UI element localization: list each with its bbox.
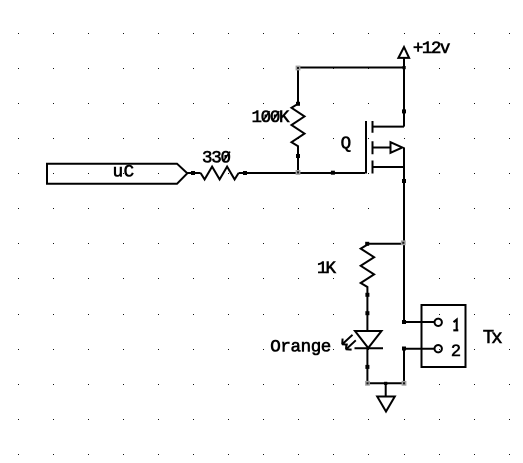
node: endpoint at tag tip — [191, 171, 195, 175]
connector pin 2 circle — [435, 345, 442, 352]
node: drain pin endpoint — [402, 109, 406, 113]
wire 100K branch top — [298, 68, 404, 104]
node: source pin endpoint — [402, 179, 406, 183]
node: gray junction 1K branch / source wire — [401, 240, 406, 245]
node: 1K top pin endpoint — [365, 242, 369, 246]
power +12v symbol — [398, 47, 409, 58]
node: 100K bottom pin endpoint — [296, 154, 300, 158]
svg-text:Tx: Tx — [483, 327, 503, 349]
resistor 100K — [292, 104, 305, 173]
tag uC — [47, 164, 187, 184]
node: gray junction 100K top corner — [296, 66, 301, 71]
label 100K — [252, 108, 290, 128]
resistor 330 — [201, 167, 239, 180]
ground symbol — [377, 382, 395, 412]
label uC — [113, 162, 135, 182]
node: LED top pin endpoint — [365, 311, 369, 315]
label pin 1 — [453, 320, 458, 331]
label 330 — [202, 148, 231, 168]
LED emission arrows — [342, 335, 356, 350]
svg-text:Q: Q — [341, 134, 352, 154]
node: LED bottom pin endpoint — [365, 365, 369, 369]
svg-text:+12v: +12v — [413, 39, 451, 59]
node: gray junction bottom wire left — [365, 381, 370, 386]
transistor Q (P-MOSFET) — [366, 121, 404, 174]
node: endpoint right of 330 — [243, 171, 247, 175]
node: 100K top pin endpoint — [296, 102, 300, 106]
node: corner at pin 1 wire — [402, 320, 406, 324]
label Q — [341, 134, 352, 154]
node: 1K bottom pin endpoint — [365, 293, 369, 297]
label 1K — [317, 259, 336, 279]
wire source net down — [404, 148, 435, 323]
connector Tx box — [422, 305, 466, 367]
label Orange — [270, 337, 331, 357]
LED D1 Orange — [355, 313, 384, 383]
svg-text:uC: uC — [113, 162, 135, 182]
connector pin 1 circle — [435, 319, 442, 326]
node: T junction at +12v rail — [403, 66, 406, 69]
wire bottom net — [367, 382, 404, 384]
resistor 1K — [361, 245, 374, 314]
wire 1K branch — [367, 243, 404, 246]
node: corner at pin 2 wire — [402, 347, 406, 351]
svg-text:330: 330 — [202, 148, 231, 168]
svg-text:100K: 100K — [252, 108, 290, 128]
label Tx — [483, 327, 503, 349]
svg-text:2: 2 — [451, 341, 460, 360]
wire gate net: 330 to transistor gate — [239, 172, 365, 174]
label +12v — [413, 39, 451, 59]
svg-text:Orange: Orange — [270, 337, 331, 357]
node: gray junction 100K bottom / gate wire — [296, 170, 301, 175]
node: gate pin endpoint — [331, 171, 335, 175]
label pin 2 — [451, 341, 460, 360]
node: gray junction bottom wire right — [402, 381, 407, 386]
wire +12v to drain — [298, 58, 404, 127]
wire pin2 net — [404, 349, 435, 384]
svg-text:1K: 1K — [317, 259, 336, 279]
wire gate net: tag tip to 330 resistor — [187, 172, 200, 174]
